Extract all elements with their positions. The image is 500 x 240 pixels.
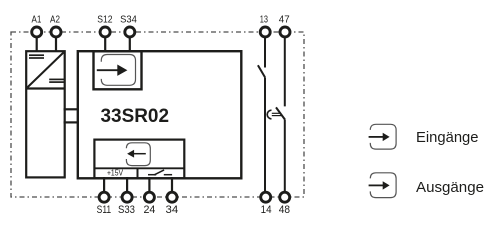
legend input icon <box>369 124 397 149</box>
terminal S11 <box>99 192 109 202</box>
svg-text:33SR02: 33SR02 <box>101 105 170 127</box>
terminal S12 <box>100 27 110 37</box>
power supply PSU box <box>26 51 64 177</box>
svg-text:47: 47 <box>279 14 290 25</box>
wire S33 stem <box>126 177 128 192</box>
module 33SR02 outline <box>78 51 242 178</box>
dash-dot module boundary <box>11 32 304 197</box>
terminal S34 <box>125 27 135 37</box>
svg-text:S11: S11 <box>97 204 112 216</box>
svg-text:Eingänge: Eingänge <box>416 130 479 146</box>
contact 13-14 <box>258 37 265 192</box>
terminal 48 <box>280 192 290 202</box>
terminal S33 <box>122 192 132 202</box>
output block <box>94 140 184 179</box>
terminal 24 <box>144 192 154 202</box>
terminal 34 <box>167 192 177 202</box>
svg-text:Ausgänge: Ausgänge <box>416 180 484 196</box>
svg-text:A2: A2 <box>50 14 60 25</box>
wire S34 stem <box>129 37 131 52</box>
svg-text:A1: A1 <box>31 14 41 25</box>
contact 47-48 <box>276 37 285 192</box>
terminal 14 <box>261 192 271 202</box>
terminal A1 <box>32 27 42 37</box>
svg-text:S33: S33 <box>118 204 135 216</box>
wire 34 stem <box>171 177 173 192</box>
wire 24 stem <box>148 177 150 192</box>
svg-text:13: 13 <box>260 14 268 25</box>
svg-text:S12: S12 <box>97 14 112 25</box>
svg-text:24: 24 <box>143 204 155 216</box>
wire S12 stem <box>104 37 106 52</box>
terminal 47 <box>280 27 290 37</box>
forced-guided link symbol <box>267 110 281 119</box>
wire A1 stem <box>36 37 38 52</box>
wire S11 stem <box>103 177 105 192</box>
input block <box>94 51 142 89</box>
wire A2 stem <box>55 37 57 52</box>
legend output icon <box>369 173 397 198</box>
svg-text:14: 14 <box>261 204 272 216</box>
svg-text:34: 34 <box>166 204 179 216</box>
svg-text:+15V: +15V <box>107 168 123 178</box>
svg-text:S34: S34 <box>120 14 137 25</box>
output icon <box>126 143 150 166</box>
input icon <box>97 55 136 86</box>
svg-text:48: 48 <box>279 204 290 216</box>
terminal 13 <box>260 27 270 37</box>
wire link rungs between PSU and module <box>64 108 79 110</box>
terminal A2 <box>51 27 61 37</box>
relay contact symbol in output block <box>148 170 172 175</box>
